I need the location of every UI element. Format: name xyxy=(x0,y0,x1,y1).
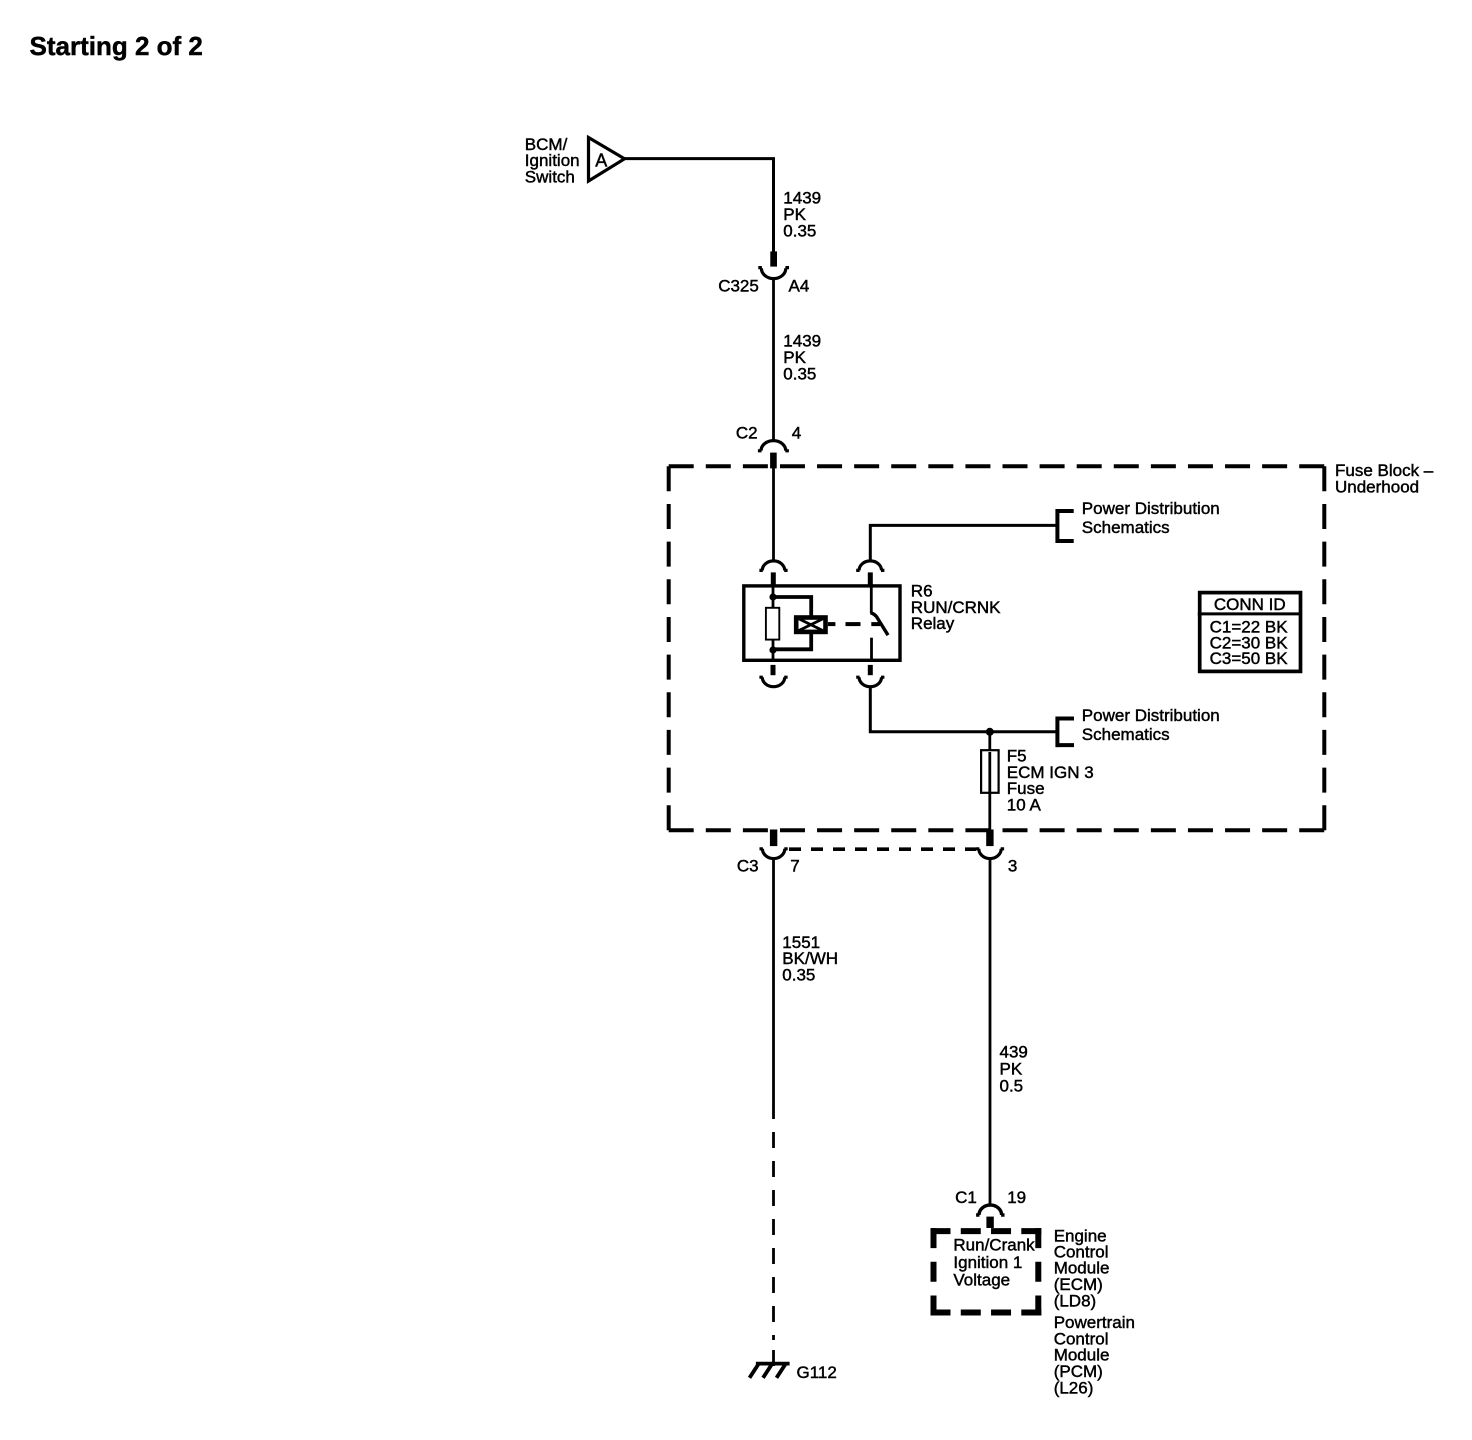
svg-text:1439PK0.35: 1439PK0.35 xyxy=(783,188,821,240)
svg-text:A: A xyxy=(595,151,607,171)
connector C3 female socket (pin 7) xyxy=(760,849,788,859)
connector C3 male pin (left, pin 7) xyxy=(770,830,777,847)
svg-text:1439PK0.35: 1439PK0.35 xyxy=(783,331,821,383)
relay R6 pin bottom-right xyxy=(868,665,873,675)
ground G112 xyxy=(750,1364,790,1378)
off-page connector triangle A xyxy=(589,138,625,182)
wire pin 3 down to ECM xyxy=(989,859,992,1205)
relay R6 socket top-right xyxy=(856,561,884,571)
ECM dashed box xyxy=(931,1228,1042,1315)
svg-text:C1=22 BKC2=30 BKC3=50 BK: C1=22 BKC2=30 BKC3=50 BK xyxy=(1210,618,1289,669)
svg-text:BCM/IgnitionSwitch: BCM/IgnitionSwitch xyxy=(525,135,580,187)
connector C325 female socket xyxy=(758,268,789,279)
fuse F5 xyxy=(981,750,999,793)
CONN ID table xyxy=(1198,593,1302,672)
relay actuator dashed link xyxy=(828,622,880,626)
dashed ground wire xyxy=(772,1103,775,1340)
wire relay switch pin to power distribution xyxy=(870,525,1056,560)
relay switch blade xyxy=(871,613,888,635)
wire C325 to C2 xyxy=(772,279,775,440)
svg-text:C1: C1 xyxy=(955,1188,977,1207)
wire switch fixed contact xyxy=(870,584,873,613)
svg-text:C325: C325 xyxy=(718,277,759,296)
svg-text:19: 19 xyxy=(1007,1188,1026,1207)
power distribution bracket (upper) xyxy=(1056,509,1074,543)
node junction top xyxy=(769,593,776,600)
svg-text:EngineControlModule(ECM)(LD8): EngineControlModule(ECM)(LD8) xyxy=(1054,1227,1110,1311)
wire resistor to bottom junction xyxy=(772,640,775,661)
svg-text:C2: C2 xyxy=(736,424,758,443)
node junction at fuse xyxy=(986,728,994,736)
connector C1 male pin xyxy=(986,1217,993,1228)
svg-text:Power DistributionSchematics: Power DistributionSchematics xyxy=(1082,499,1220,537)
svg-text:439PK0.5: 439PK0.5 xyxy=(1000,1043,1028,1096)
svg-text:1551BK/WH0.35: 1551BK/WH0.35 xyxy=(782,933,838,985)
wire coil branch top xyxy=(773,597,811,617)
node junction bottom xyxy=(769,646,776,653)
relay R6 socket top-left xyxy=(759,561,787,571)
svg-text:C3: C3 xyxy=(737,856,759,875)
svg-text:Fuse Block –Underhood: Fuse Block –Underhood xyxy=(1335,461,1434,496)
relay R6 pin top-right xyxy=(868,572,873,584)
connector C2 female socket xyxy=(758,441,789,451)
wire switch common xyxy=(870,638,873,661)
svg-text:R6RUN/CRNKRelay: R6RUN/CRNKRelay xyxy=(911,582,1001,634)
svg-text:A4: A4 xyxy=(789,277,810,296)
wire left pin through coil xyxy=(772,584,775,608)
fuse block underhood dashed box xyxy=(669,466,1325,830)
dotted connector tie line C3 xyxy=(789,847,976,851)
connector C2 male pin xyxy=(770,453,777,469)
relay R6 socket bottom-left xyxy=(759,677,787,687)
svg-text:4: 4 xyxy=(792,424,801,443)
connector C1 female socket xyxy=(976,1205,1004,1215)
svg-text:Power DistributionSchematics: Power DistributionSchematics xyxy=(1082,706,1220,744)
relay R6 pin bottom-left xyxy=(771,665,776,675)
wire node to fuse F5 xyxy=(988,732,991,750)
svg-text:CONN ID: CONN ID xyxy=(1214,595,1286,614)
wire from triangle to corner and down xyxy=(625,159,774,252)
svg-text:G112: G112 xyxy=(797,1363,837,1382)
power distribution bracket (lower) xyxy=(1056,717,1074,748)
svg-text:3: 3 xyxy=(1008,856,1017,875)
relay coil solenoid box with X xyxy=(796,618,825,632)
relay R6 pin top-left xyxy=(771,572,776,584)
svg-text:7: 7 xyxy=(790,856,799,875)
svg-text:PowertrainControlModule(PCM)(L: PowertrainControlModule(PCM)(L26) xyxy=(1054,1313,1135,1397)
relay R6 socket bottom-right xyxy=(856,677,884,687)
wire fuse to pin 3 xyxy=(988,791,991,830)
resistor (relay coil suppression) xyxy=(766,608,779,640)
wire C3 pin7 down xyxy=(772,859,775,1103)
wire C2 to relay coil pin xyxy=(772,466,775,561)
connector C3 male pin (right, pin 3) xyxy=(986,830,993,847)
svg-text:Starting 2 of 2: Starting 2 of 2 xyxy=(30,31,203,61)
svg-text:F5ECM IGN 3Fuse10 A: F5ECM IGN 3Fuse10 A xyxy=(1007,747,1094,815)
relay R6 box xyxy=(744,586,900,660)
connector C3 female socket (pin 3) xyxy=(976,849,1004,859)
wire relay output to fuse node xyxy=(870,688,1056,732)
connector C325 male pin xyxy=(770,251,777,266)
svg-text:Run/CrankIgnition 1Voltage: Run/CrankIgnition 1Voltage xyxy=(953,1235,1035,1289)
wire coil branch bottom xyxy=(773,633,811,650)
